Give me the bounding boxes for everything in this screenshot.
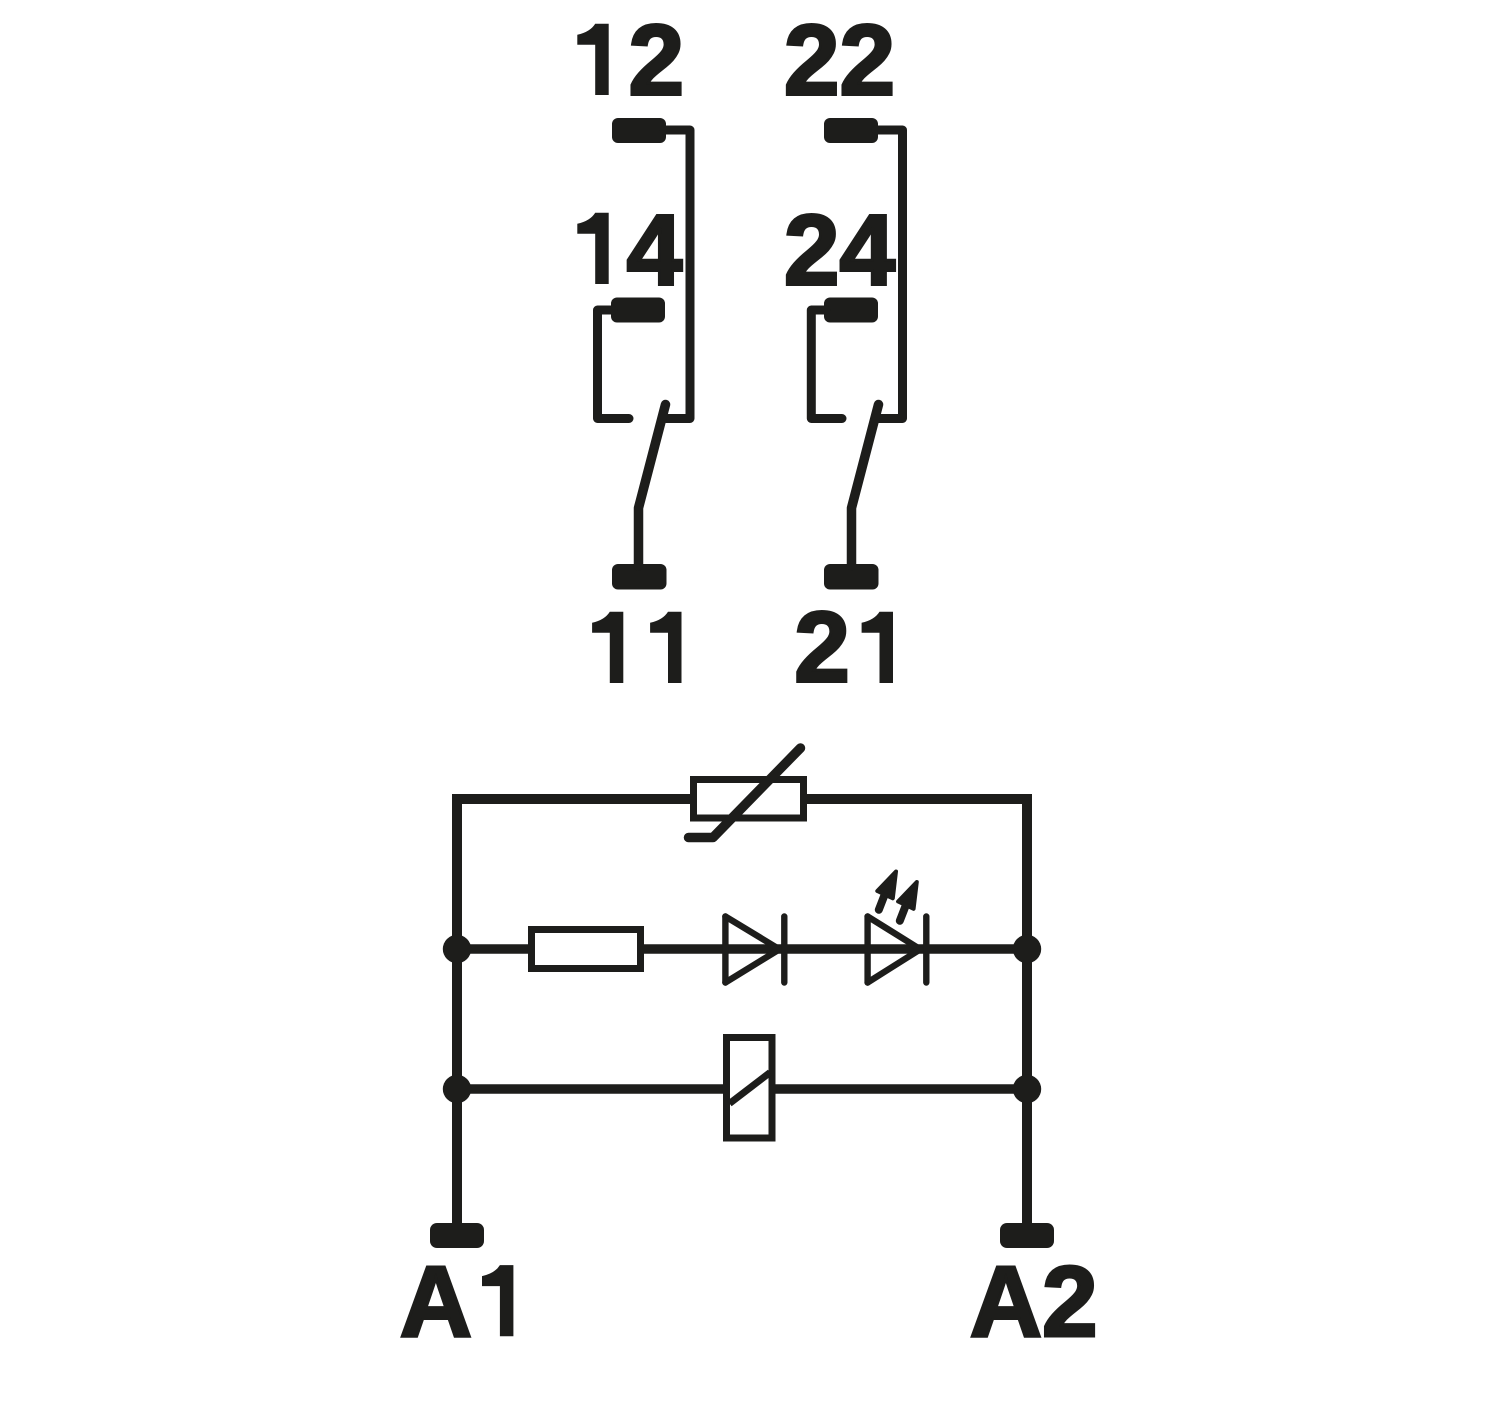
- LED arrow 2 head: [898, 882, 917, 909]
- LED arrow 1 head: [877, 872, 896, 899]
- terminal bar 11: [612, 564, 667, 590]
- wire from 24 to NO contact: [811, 310, 842, 419]
- switch lever pole 2: [852, 405, 879, 567]
- terminal bar 12: [612, 118, 666, 143]
- LED arrow 1 shaft: [879, 891, 887, 910]
- terminal bar 22: [824, 118, 878, 143]
- relay coil body: [727, 1038, 773, 1139]
- varistor body: [694, 780, 804, 819]
- diode D1 cathode bar: [781, 917, 787, 983]
- wire from 14 to NO contact: [598, 310, 630, 419]
- node junction left middle: [443, 935, 471, 963]
- node junction left bottom: [443, 1075, 471, 1103]
- terminal bar A1: [430, 1223, 484, 1248]
- node junction right middle: [1013, 935, 1041, 963]
- pin label 11: [592, 612, 623, 683]
- coil circuit outer frame wire A1-A2: [457, 799, 1027, 1223]
- svg-text:24: 24: [784, 194, 896, 306]
- svg-text:2: 2: [628, 5, 684, 117]
- terminal bar 14: [611, 298, 665, 323]
- switch lever pole 1: [639, 405, 666, 567]
- pin label 12: [577, 24, 608, 95]
- terminal bar 21: [824, 564, 879, 590]
- LED arrow 2 shaft: [900, 902, 908, 921]
- svg-text:2: 2: [794, 592, 850, 704]
- varistor strike line: [689, 748, 801, 838]
- resistor body: [532, 930, 641, 969]
- diode D1 anode bar: [722, 917, 728, 983]
- bottom branch wire: [457, 1084, 1027, 1094]
- pin label 14: [577, 213, 608, 284]
- svg-text:A: A: [400, 1246, 472, 1358]
- svg-text:4: 4: [627, 194, 683, 306]
- LED cathode bar: [923, 917, 929, 983]
- diode D1 triangle: [725, 917, 779, 983]
- svg-text:A2: A2: [970, 1246, 1098, 1358]
- relay coil diagonal: [730, 1073, 771, 1104]
- svg-text:22: 22: [784, 5, 895, 117]
- wire from 22 to NC contact: [876, 130, 903, 419]
- node junction right bottom: [1013, 1075, 1041, 1103]
- LED triangle: [868, 917, 921, 983]
- middle branch wire: [457, 944, 1027, 954]
- wire from 12 to NC contact: [664, 130, 690, 419]
- terminal bar A2: [1000, 1223, 1054, 1248]
- LED anode bar: [864, 917, 870, 983]
- terminal bar 24: [824, 298, 878, 323]
